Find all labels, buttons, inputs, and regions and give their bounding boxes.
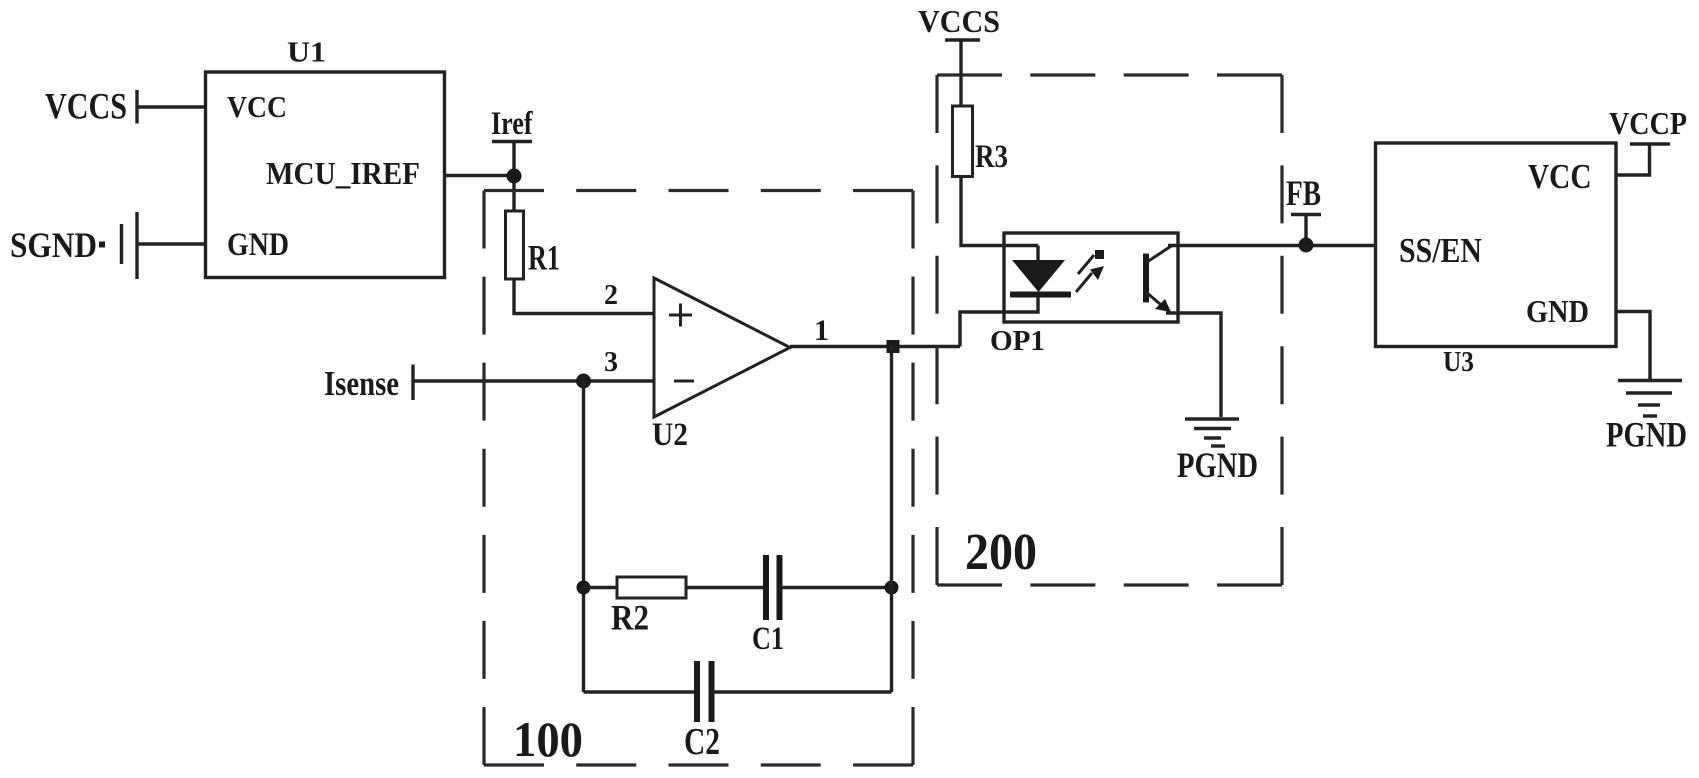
node square on output: [887, 340, 900, 353]
wire VCCS down to R3: [959, 40, 962, 106]
wire C1 to right node: [780, 586, 892, 589]
svg-text:VCCS: VCCS: [918, 3, 1000, 39]
svg-text:VCC: VCC: [227, 89, 287, 124]
wire R3 bottom to LED anode: [961, 177, 1038, 246]
wire U3 VCC to VCCP: [1616, 144, 1650, 175]
LED triangle: [1012, 260, 1065, 292]
svg-text:PGND: PGND: [1177, 445, 1258, 485]
op-amp plus input sign: [669, 304, 692, 327]
VCCS terminal bar: [945, 38, 980, 41]
node dot feedback right: [885, 581, 899, 595]
op-amp minus input sign: [674, 380, 694, 383]
svg-text:3: 3: [604, 347, 618, 378]
svg-text:SGND: SGND: [10, 225, 97, 265]
svg-text:U1: U1: [287, 38, 326, 69]
optocoupler OP1 box: [1004, 233, 1178, 322]
wire feedback left vertical (pin3 node down): [582, 381, 585, 692]
FB tick down to node: [1304, 215, 1307, 246]
dashed block 200: [937, 75, 1282, 585]
VCCS terminal tick: [135, 90, 138, 124]
wire emitter to PGND: [1166, 313, 1221, 417]
Iref terminal bar: [492, 140, 532, 143]
wire U3 GND to PGND: [1616, 312, 1650, 381]
svg-text:OP1: OP1: [990, 325, 1045, 357]
svg-text:R3: R3: [975, 139, 1008, 175]
svg-text:GND: GND: [227, 227, 289, 263]
svg-text:R2: R2: [611, 598, 649, 638]
IC U1 box: [206, 72, 445, 278]
wire VCCS to U1 VCC: [137, 105, 206, 108]
svg-text:GND: GND: [1526, 293, 1589, 329]
wire Isense to op-amp pin3: [413, 379, 654, 382]
wire collector/FB to U3 SS/EN: [1168, 244, 1376, 247]
svg-text:PGND: PGND: [1606, 415, 1687, 455]
svg-text:200: 200: [965, 524, 1037, 581]
op-amp U2 triangle: [654, 278, 790, 417]
light arrow lower: [1076, 273, 1092, 292]
resistor R3: [953, 106, 973, 177]
wire R2 to C1: [686, 586, 763, 589]
svg-text:SS/EN: SS/EN: [1399, 231, 1482, 270]
svg-text:U3: U3: [1443, 347, 1474, 378]
capacitor C1: [763, 555, 769, 620]
phototransistor emitter: [1146, 292, 1167, 310]
ground PGND (left): [1185, 417, 1239, 420]
svg-text:VCCS: VCCS: [45, 87, 127, 128]
wire node to R2: [584, 586, 618, 589]
light arrow upper (square tip): [1078, 255, 1094, 274]
resistor R2: [617, 577, 686, 598]
wire U1 MCU_IREF to node: [445, 174, 515, 177]
phototransistor collector: [1147, 246, 1172, 263]
svg-text:VCCP: VCCP: [1609, 105, 1687, 141]
svg-text:C2: C2: [684, 721, 720, 763]
LED cathode lead: [960, 297, 1038, 347]
svg-text:100: 100: [513, 711, 583, 767]
wire bottom row left: [584, 690, 697, 693]
node dot feedback left: [577, 581, 591, 595]
wire SGND to U1 GND: [137, 242, 206, 245]
svg-text:Isense: Isense: [324, 364, 399, 403]
svg-text:FB: FB: [1286, 173, 1321, 213]
wire right vertical (output node down to bottom row): [890, 347, 893, 693]
wire bottom row right: [712, 690, 892, 693]
svg-text:R1: R1: [528, 238, 560, 278]
dashed block 100: [484, 191, 913, 766]
wire Iref bar down through node to R1: [512, 142, 515, 212]
SGND ground symbol (rotated earth: dot, short bar, long bar): [99, 242, 105, 248]
svg-text:Iref: Iref: [491, 106, 533, 142]
IC U3 box: [1376, 143, 1617, 347]
svg-text:2: 2: [604, 280, 618, 311]
svg-text:C1: C1: [752, 621, 784, 657]
phototransistor base bar: [1143, 254, 1149, 303]
svg-text:1: 1: [814, 314, 829, 347]
VCCP terminal bar: [1630, 142, 1670, 145]
node junction dot on pin3 wire: [576, 374, 591, 389]
svg-text:VCC: VCC: [1528, 157, 1592, 196]
LED cathode bar: [1010, 292, 1071, 298]
wire op-amp output pin1: [790, 345, 960, 348]
node dot FB: [1299, 238, 1314, 253]
Isense terminal tick: [411, 365, 414, 401]
emitter arrowhead: [1155, 299, 1171, 312]
capacitor C2: [694, 661, 700, 722]
ground PGND (right): [1618, 379, 1682, 382]
svg-text:MCU_IREF: MCU_IREF: [266, 155, 420, 191]
FB terminal bar: [1291, 213, 1321, 216]
node junction dot (Iref/MCU_IREF/R1): [507, 169, 522, 184]
wire R1 bottom to op-amp pin2: [514, 279, 654, 314]
LED anode lead: [1036, 246, 1039, 262]
resistor R1: [506, 211, 524, 279]
svg-text:U2: U2: [652, 417, 688, 453]
